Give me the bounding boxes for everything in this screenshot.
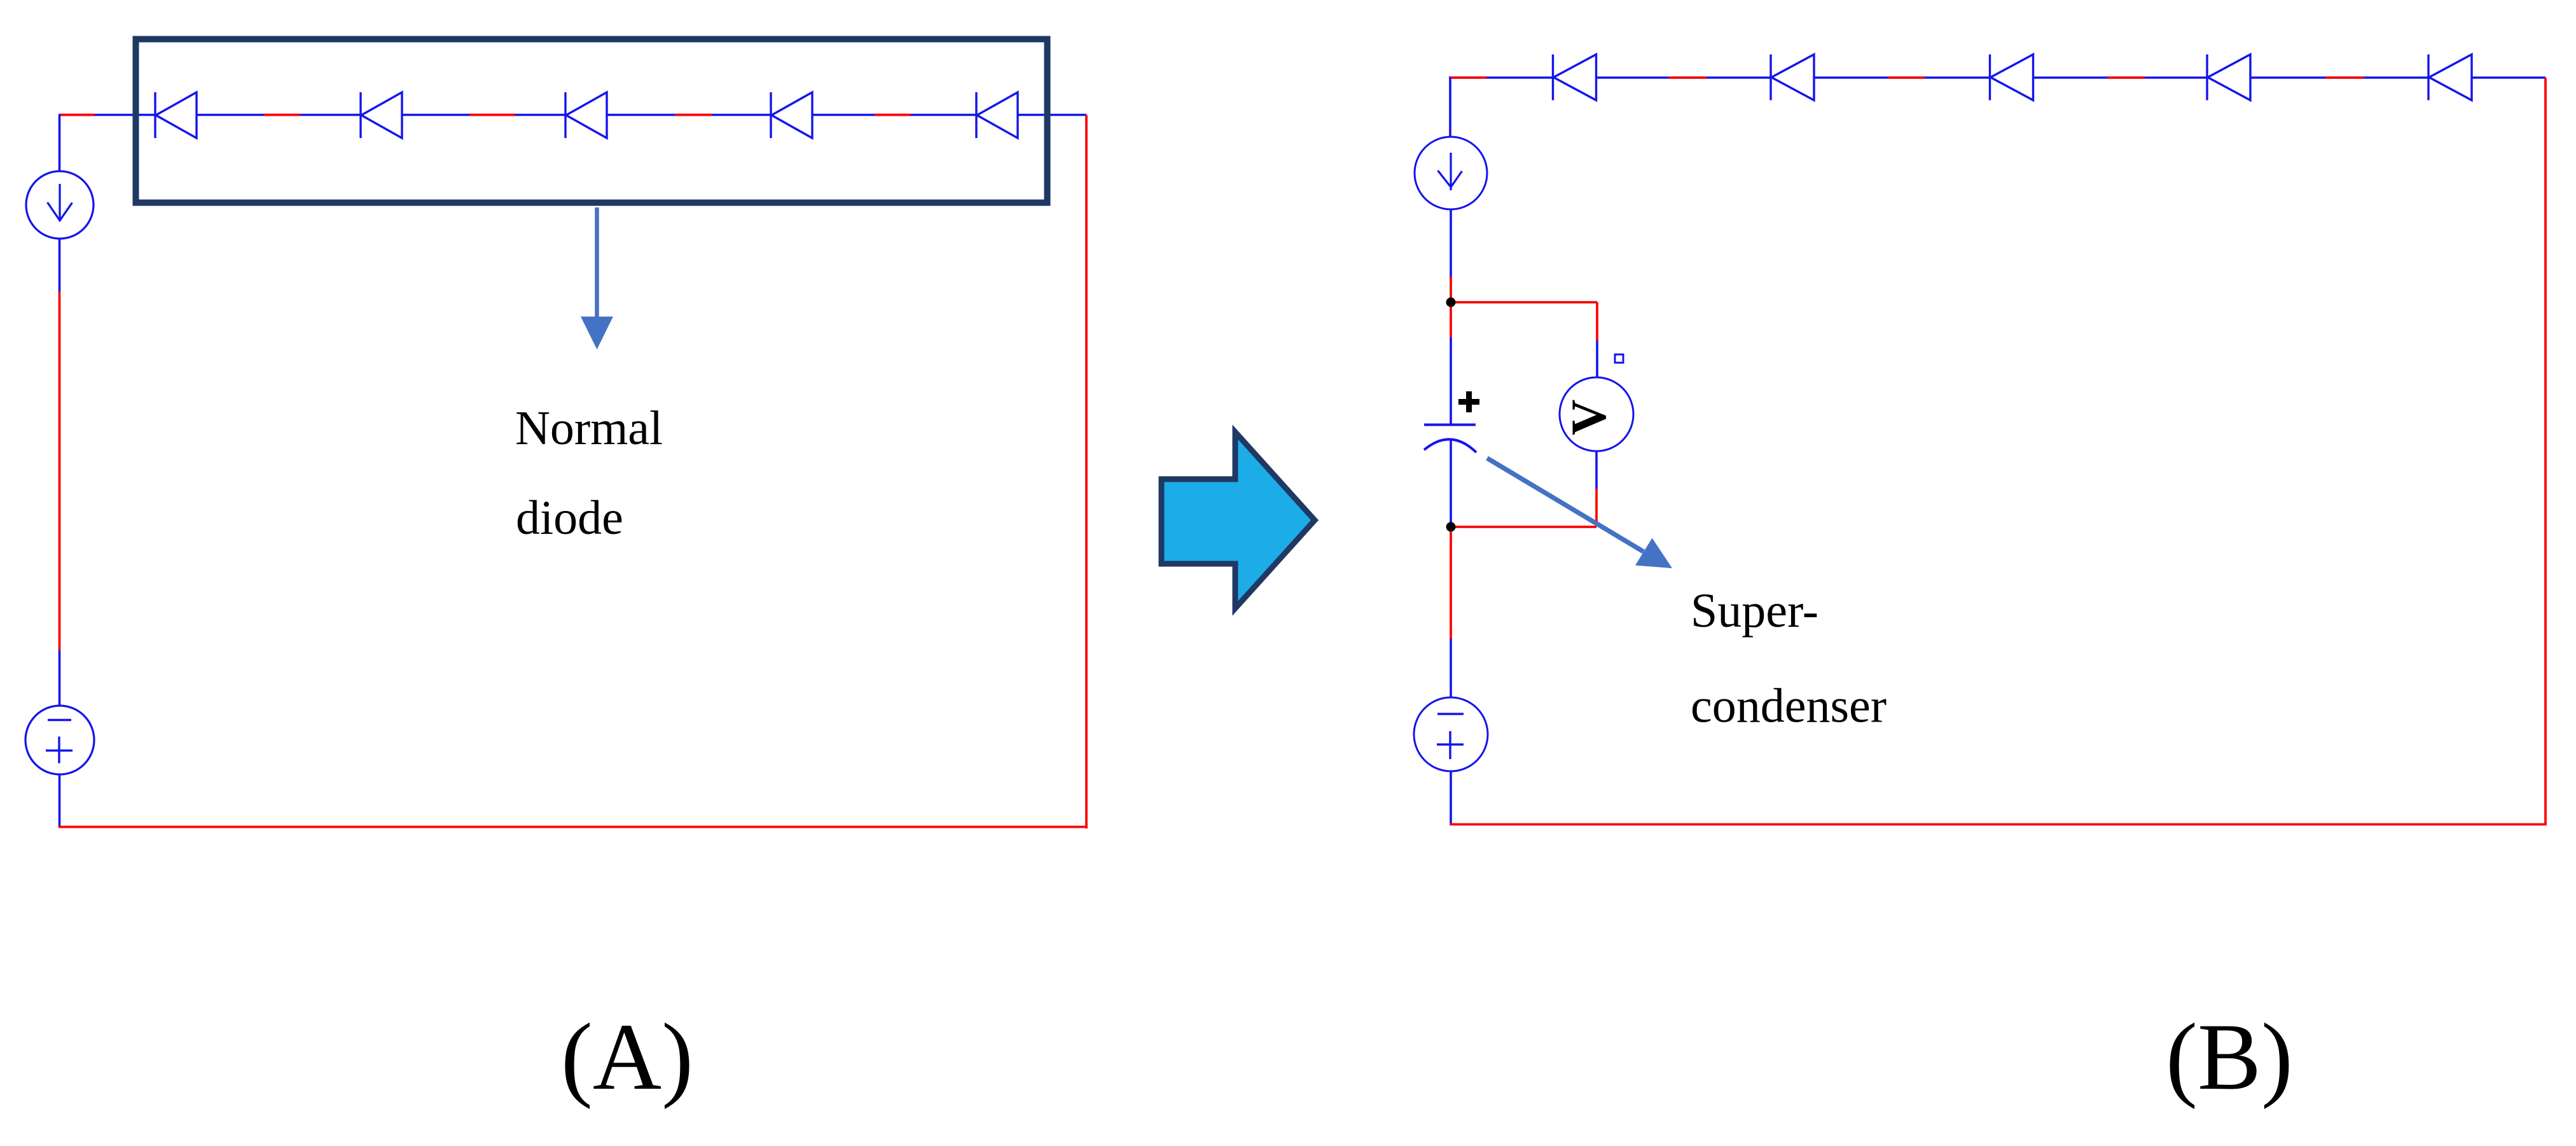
- svg-text:Super-: Super-: [1691, 584, 1818, 638]
- svg-text:condenser: condenser: [1691, 680, 1887, 733]
- svg-text:Normal: Normal: [515, 402, 663, 455]
- svg-text:diode: diode: [516, 491, 623, 545]
- svg-text:(B): (B): [2166, 1004, 2293, 1110]
- svg-text:V: V: [1561, 400, 1616, 435]
- svg-text:(A): (A): [561, 1004, 693, 1110]
